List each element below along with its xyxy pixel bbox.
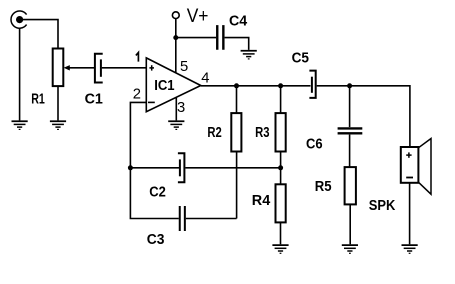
svg-text:SPK: SPK [369, 197, 396, 214]
svg-text:R2: R2 [207, 124, 221, 141]
svg-text:3: 3 [177, 100, 185, 116]
svg-text:R5: R5 [315, 178, 332, 195]
svg-text:C4: C4 [229, 12, 248, 29]
svg-text:C1: C1 [85, 91, 103, 108]
svg-text:R1: R1 [31, 91, 45, 108]
svg-text:C6: C6 [306, 136, 323, 153]
svg-text:2: 2 [133, 87, 141, 103]
svg-text:R3: R3 [255, 124, 269, 141]
svg-text:4: 4 [201, 70, 209, 86]
svg-text:R4: R4 [252, 192, 271, 209]
svg-text:5: 5 [180, 59, 188, 75]
svg-text:IC1: IC1 [154, 77, 174, 94]
svg-text:C5: C5 [292, 49, 309, 66]
svg-text:V+: V+ [187, 5, 209, 27]
svg-text:C2: C2 [149, 183, 166, 200]
svg-text:C3: C3 [147, 231, 165, 248]
